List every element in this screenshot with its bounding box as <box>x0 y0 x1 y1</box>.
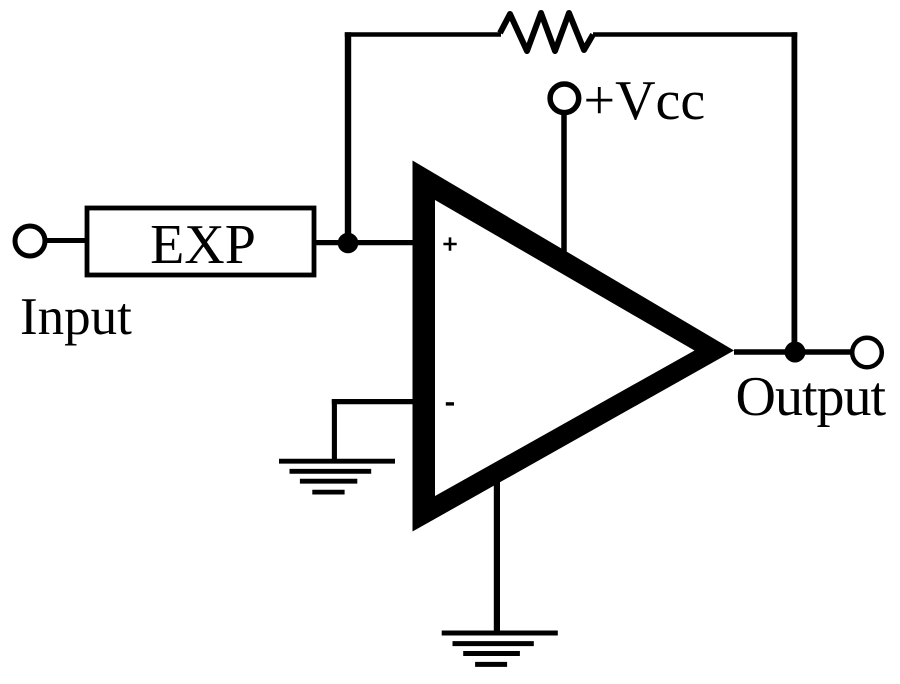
input terminal circle <box>15 226 45 256</box>
svg-text:EXP: EXP <box>150 214 256 276</box>
op-amp noninverting pin + <box>443 237 456 250</box>
wire inverting input horizontal <box>332 399 414 404</box>
wire feedback vertical left <box>345 32 351 243</box>
wire feedback right vertical <box>792 32 798 352</box>
svg-text:+Vcc: +Vcc <box>584 70 706 132</box>
op-amp inverting pin - <box>446 402 454 405</box>
resistor R1 (feedback) <box>500 13 593 51</box>
wire EXP box to op-amp noninverting input <box>314 240 414 245</box>
wire input terminal to EXP box <box>45 238 88 243</box>
EXP block U1 <box>87 208 314 276</box>
ground GND2 (op-amp negative supply) <box>442 633 558 664</box>
output terminal circle <box>852 338 882 368</box>
wire Vcc to op-amp top <box>561 113 567 252</box>
+Vcc terminal circle <box>550 84 579 113</box>
wire feedback top right horizontal <box>593 32 797 37</box>
ground GND1 (inverting input) <box>279 461 395 492</box>
junction node B (output tap) <box>785 342 806 363</box>
wire feedback top left horizontal <box>345 32 501 37</box>
wire op-amp output <box>734 349 852 355</box>
junction node A (feedback tap) <box>338 233 359 254</box>
op-amp U2 body <box>413 161 735 532</box>
wire inverting input vertical to ground <box>332 399 337 461</box>
wire op-amp bottom to ground <box>494 470 500 633</box>
svg-text:Input: Input <box>20 288 132 346</box>
svg-text:Output: Output <box>736 366 887 428</box>
